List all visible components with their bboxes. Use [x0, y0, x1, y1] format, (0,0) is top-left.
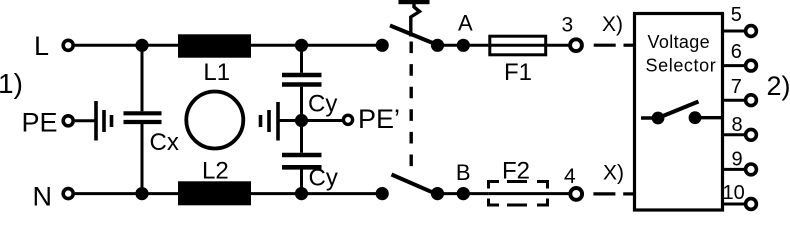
svg-text:L2: L2: [202, 158, 229, 185]
svg-text:X): X): [603, 161, 624, 184]
wire Cy vertical segment 3: [300, 170, 303, 194]
pin 9 stub: [723, 168, 746, 171]
terminal 3: [570, 39, 582, 51]
pin 10 stub: [723, 203, 746, 206]
svg-text:4: 4: [564, 165, 576, 188]
capacitor Cx: [124, 113, 162, 122]
wire PE to chassis ground: [75, 119, 95, 122]
svg-text:9: 9: [732, 149, 743, 171]
inductor L1: [178, 34, 251, 57]
wire switch to node A: [438, 44, 489, 47]
svg-text:3: 3: [562, 14, 574, 37]
pin 10 terminal: [746, 199, 757, 210]
switch S1b blade: [392, 175, 434, 193]
svg-text:Selector: Selector: [646, 56, 717, 76]
wire PE' node to terminal: [302, 119, 343, 122]
wire Cy vertical segment 2: [300, 87, 303, 153]
svg-text:L: L: [34, 31, 49, 61]
inductor L2: [178, 181, 251, 205]
pin 8 stub: [723, 133, 746, 136]
pin 5 terminal: [746, 26, 757, 37]
junction dot PE' node: [295, 114, 308, 127]
fuse F1: [490, 36, 546, 55]
svg-text:A: A: [458, 11, 473, 36]
svg-text:5: 5: [731, 4, 742, 26]
junction dot top of Cx: [135, 39, 148, 52]
choke core circle: [186, 92, 243, 149]
chassis ground (PE' node): [261, 102, 279, 141]
svg-text:Cy: Cy: [308, 91, 337, 118]
wire L rail L1 to switch: [251, 44, 382, 47]
wire N rail L2 to switch: [251, 192, 382, 195]
pin 5 stub: [723, 30, 746, 33]
svg-text:L1: L1: [203, 59, 230, 86]
switch S1b fixed contact dot: [376, 187, 389, 200]
junction dot bottom of Cx: [135, 187, 148, 200]
pin 7 terminal: [746, 95, 757, 106]
wire L rail left segment: [75, 44, 178, 47]
svg-text:6: 6: [731, 41, 742, 63]
svg-text:F2: F2: [502, 157, 530, 184]
junction dot Cy bottom rail: [295, 187, 308, 200]
svg-text:10: 10: [723, 182, 745, 204]
switch S1a moving contact dot: [431, 39, 444, 52]
svg-text:PE’: PE’: [358, 104, 400, 134]
pin 7 stub: [723, 99, 746, 102]
svg-text:X): X): [602, 13, 623, 36]
svg-text:B: B: [456, 160, 471, 185]
svg-text:7: 7: [731, 76, 742, 98]
terminal PE': [343, 115, 352, 124]
wire switch to node B: [438, 192, 489, 195]
junction dot Cy top rail: [295, 39, 308, 52]
mechanical coupling dashed line: [410, 42, 413, 169]
svg-text:PE: PE: [22, 108, 58, 138]
wire through F1: [488, 44, 570, 47]
svg-text:N: N: [33, 181, 53, 211]
pin 6 stub: [723, 64, 746, 67]
pin 9 terminal: [746, 164, 757, 175]
switch S1a fixed contact dot: [376, 39, 389, 52]
wire N rail left segment: [75, 192, 178, 195]
wire Cy vertical segment 1: [300, 45, 303, 73]
capacitor Cy (bottom): [282, 155, 322, 167]
selector switch left stub: [641, 116, 658, 119]
svg-text:Cy: Cy: [309, 165, 338, 192]
dashed link X top: [594, 44, 635, 47]
svg-text:2): 2): [767, 71, 790, 101]
chassis ground (PE): [96, 101, 112, 141]
switch actuator T-bar: [399, 0, 430, 4]
capacitor Cy (top): [282, 75, 322, 85]
selector switch right dot: [689, 111, 702, 124]
terminal PE: [63, 116, 73, 126]
svg-text:F1: F1: [504, 59, 532, 86]
fuse F2 (dashed): [489, 180, 548, 207]
wire through F2: [488, 192, 570, 195]
terminal L: [63, 40, 73, 50]
switch S1a blade: [390, 26, 434, 44]
pin 8 terminal: [746, 129, 757, 140]
wire Cx vertical lower: [141, 124, 144, 194]
svg-text:1): 1): [0, 68, 23, 99]
selector switch blade: [658, 102, 699, 119]
wire ground to PE' node: [278, 119, 302, 122]
node A dot: [457, 39, 470, 52]
selector switch left dot: [652, 112, 665, 125]
switch S1b moving contact dot: [431, 187, 444, 200]
dashed link X bottom: [593, 192, 635, 195]
svg-text:8: 8: [732, 114, 743, 136]
selector switch right stub: [695, 116, 721, 119]
voltage selector box: [635, 14, 723, 211]
svg-text:Voltage: Voltage: [648, 32, 711, 52]
terminal 4: [570, 188, 582, 200]
node B dot: [457, 187, 470, 200]
switch actuator zigzag: [411, 4, 420, 37]
svg-text:Cx: Cx: [150, 129, 179, 156]
wire Cx vertical upper: [141, 45, 144, 111]
pin 6 terminal: [746, 60, 757, 71]
terminal N: [63, 189, 73, 199]
